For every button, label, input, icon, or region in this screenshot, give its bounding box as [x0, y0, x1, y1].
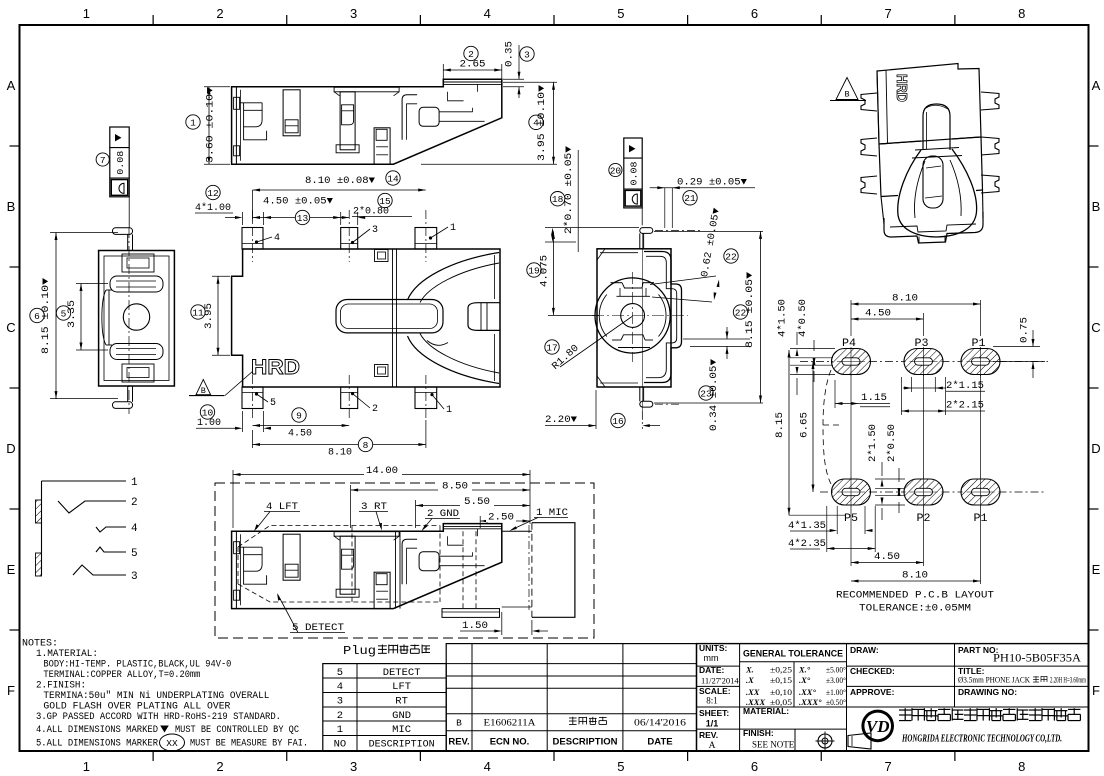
svg-text:DATE: DATE — [647, 737, 672, 748]
svg-text:A: A — [709, 741, 716, 751]
svg-text:SCALE:: SCALE: — [699, 686, 731, 696]
svg-text:.X°: .X° — [799, 675, 811, 685]
svg-text:A: A — [7, 78, 16, 93]
svg-text:1: 1 — [83, 759, 90, 774]
svg-text:4.50 ±0.05▼: 4.50 ±0.05▼ — [263, 197, 333, 208]
view A: top side elevation of jack — [232, 79, 502, 164]
svg-text:8: 8 — [1018, 759, 1025, 774]
svg-text:4*1.00: 4*1.00 — [195, 202, 231, 214]
svg-text:1.MATERIAL:: 1.MATERIAL: — [36, 649, 98, 660]
view D: left side end view — [99, 228, 175, 414]
svg-text:4*2.35: 4*2.35 — [788, 538, 826, 550]
HRD marking on plan view — [225, 356, 300, 396]
plug contact labels — [254, 502, 568, 634]
datum triangle B under plan view — [189, 380, 225, 397]
svg-text:±1.00°: ±1.00° — [826, 687, 846, 697]
PCB dim 4.50 bottom — [851, 552, 924, 564]
dimension 0.62 +/-0.05 callout 22 — [650, 207, 738, 302]
company logo and name — [863, 708, 1081, 744]
svg-text:TOLERANCE:±0.05MM: TOLERANCE:±0.05MM — [859, 603, 971, 615]
svg-text:1.00: 1.00 — [197, 418, 221, 429]
svg-text:10: 10 — [202, 407, 214, 418]
PCB dim 1.15 — [835, 380, 890, 408]
svg-text:4*0.50: 4*0.50 — [797, 299, 809, 337]
svg-text:1: 1 — [83, 6, 90, 21]
svg-text:ECN NO.: ECN NO. — [490, 737, 530, 748]
svg-text:B: B — [1092, 199, 1101, 214]
svg-text:1.50: 1.50 — [462, 621, 488, 632]
svg-text:18: 18 — [552, 194, 564, 205]
svg-text:2: 2 — [216, 6, 223, 21]
dimension 1.00 callout 10 — [196, 405, 271, 432]
svg-text:NOTES:: NOTES: — [22, 639, 58, 650]
svg-text:B: B — [456, 718, 462, 729]
svg-text:8.50: 8.50 — [442, 482, 468, 493]
svg-text:19: 19 — [528, 265, 540, 276]
svg-text:2.65: 2.65 — [460, 60, 486, 71]
svg-text:MUST BE CONTROLLED BY QC: MUST BE CONTROLLED BY QC — [175, 725, 299, 736]
dimension 2*0.80 callout 15 — [333, 193, 412, 225]
svg-text:DETECT: DETECT — [383, 667, 421, 679]
svg-text:1: 1 — [337, 724, 343, 736]
svg-text:A: A — [1092, 78, 1101, 93]
svg-text:2: 2 — [216, 759, 223, 774]
svg-text:P3: P3 — [915, 338, 929, 350]
svg-text:3: 3 — [372, 225, 378, 236]
svg-text:3: 3 — [350, 759, 357, 774]
view F: isometric view — [861, 64, 999, 244]
svg-text:5: 5 — [131, 548, 138, 560]
dimension 8.15 +/-0.05 callout 22 right — [654, 231, 763, 403]
svg-text:2.FINISH:: 2.FINISH: — [36, 681, 86, 692]
svg-text:RT: RT — [395, 696, 408, 708]
svg-text:C: C — [6, 320, 15, 335]
svg-text:3.GP PASSED ACCORD WITH HRD-Ro: 3.GP PASSED ACCORD WITH HRD-RoHS-219 STA… — [36, 712, 281, 723]
svg-text:5.50: 5.50 — [464, 497, 490, 508]
svg-text:13: 13 — [297, 213, 309, 224]
svg-text:6.65: 6.65 — [800, 412, 811, 438]
dimension 2.65 callout 2 — [443, 46, 502, 79]
dimension 3.60 +/-0.10 callout 1 — [186, 87, 230, 164]
svg-text:5: 5 — [61, 308, 67, 319]
PCB layout caption — [836, 590, 994, 615]
dimension 4.075 callout 19 — [527, 231, 599, 315]
svg-text:0.08: 0.08 — [115, 150, 126, 174]
svg-text:±0,10: ±0,10 — [770, 687, 792, 697]
svg-text:8.15 ±0.10▼: 8.15 ±0.10▼ — [41, 278, 52, 354]
svg-text:UNITS:: UNITS: — [699, 643, 728, 653]
svg-text:4: 4 — [274, 233, 280, 244]
svg-text:LFT: LFT — [392, 681, 411, 693]
svg-text:6: 6 — [751, 6, 758, 21]
svg-text:8.10 ±0.08▼: 8.10 ±0.08▼ — [305, 176, 375, 187]
svg-text:1/1: 1/1 — [706, 719, 719, 729]
svg-text:8.10: 8.10 — [328, 448, 352, 459]
svg-text:BODY:HI-TEMP. PLASTIC,BLACK,UL: BODY:HI-TEMP. PLASTIC,BLACK,UL 94V-0 — [43, 660, 231, 671]
svg-text:8: 8 — [363, 440, 369, 451]
svg-text:2*0.70 ±0.05▼: 2*0.70 ±0.05▼ — [563, 146, 575, 234]
HRD marking isometric — [893, 74, 910, 102]
datum triangle B isometric — [830, 78, 866, 101]
svg-text:B: B — [844, 90, 849, 100]
svg-text:12: 12 — [207, 188, 219, 199]
svg-text:7: 7 — [884, 759, 891, 774]
svg-text:D: D — [1091, 441, 1100, 456]
svg-text:15: 15 — [379, 196, 391, 207]
svg-text:Plug: Plug — [343, 644, 376, 658]
svg-text:HONGRIDA ELECTRONIC TECHNOLOGY: HONGRIDA ELECTRONIC TECHNOLOGY CO,LTD. — [901, 734, 1062, 745]
svg-text:11: 11 — [192, 307, 204, 318]
svg-text:4.50: 4.50 — [865, 309, 891, 320]
pin identification schematic — [36, 477, 139, 583]
svg-text:14.00: 14.00 — [366, 466, 398, 477]
svg-text:HRD: HRD — [251, 356, 300, 379]
PCB dim 8.10 top — [851, 294, 981, 306]
svg-text:3: 3 — [524, 49, 530, 60]
svg-text:SEE NOTE: SEE NOTE — [752, 740, 795, 750]
svg-text:HRD: HRD — [893, 74, 910, 102]
plug diagram dims 14.00 / 8.50 / 5.50 / 2.50 — [233, 466, 530, 528]
svg-text:DESCRIPTION: DESCRIPTION — [553, 737, 618, 748]
svg-text:2.20H H=3.60mm: 2.20H H=3.60mm — [1050, 676, 1086, 685]
pins on plan view with leaders 4,3,1 top and 5,2,1 bottom — [242, 210, 456, 420]
surface flag 0.08 callout 7 — [96, 127, 129, 228]
svg-text:4*1.35: 4*1.35 — [788, 520, 826, 532]
svg-text:3.95: 3.95 — [204, 303, 215, 329]
svg-text:DRAW:: DRAW: — [850, 645, 879, 655]
dimension 3.35 callout 5 — [56, 284, 108, 351]
radius R1.80 callout 17 — [545, 317, 632, 373]
dimension 8.15 +/-0.10 callout 6 — [30, 233, 118, 399]
PCB dim 0.75 — [993, 317, 1045, 378]
revision table — [446, 644, 696, 751]
svg-text:±0,15: ±0,15 — [770, 675, 792, 685]
view C: front view with barrel circle — [592, 228, 700, 420]
svg-text:1: 1 — [450, 223, 456, 234]
svg-text:0.29 ±0.05▼: 0.29 ±0.05▼ — [677, 178, 747, 189]
svg-text:GND: GND — [392, 710, 411, 722]
svg-text:5: 5 — [270, 398, 276, 409]
notes block — [22, 639, 308, 752]
svg-text:2: 2 — [131, 497, 138, 509]
view E: section with plug inserted — [232, 523, 575, 618]
svg-text:2*0.80: 2*0.80 — [353, 206, 389, 218]
pin description table — [323, 664, 446, 751]
dimension 2.20 callout 16 — [545, 390, 660, 429]
svg-text:8.10: 8.10 — [902, 571, 928, 582]
svg-text:X.°: X.° — [798, 665, 811, 675]
PCB dim 4.50 top — [851, 309, 924, 321]
view B: plan (top) view of jack — [232, 249, 500, 387]
svg-text:B: B — [7, 199, 16, 214]
svg-text:2.20▼: 2.20▼ — [545, 415, 577, 426]
dimension 4*1.00 callout 12 — [195, 185, 271, 225]
svg-text:9: 9 — [296, 410, 302, 421]
svg-text:4.50: 4.50 — [874, 552, 900, 563]
PCB dim 2*1.50 / 2*0.50 — [867, 424, 905, 520]
svg-text:6: 6 — [751, 759, 758, 774]
svg-text:DRAWING NO:: DRAWING NO: — [958, 687, 1017, 697]
svg-text:PH10-5B05F35A: PH10-5B05F35A — [993, 653, 1082, 665]
svg-text:5.ALL DIMENSIONS MARKER: 5.ALL DIMENSIONS MARKER — [36, 739, 158, 750]
svg-text:.X: .X — [746, 675, 754, 685]
svg-text:2: 2 — [468, 49, 474, 60]
recommended PCB layout — [800, 300, 1048, 584]
svg-text:B: B — [201, 386, 206, 396]
svg-text:RECOMMENDED P.C.B LAYOUT: RECOMMENDED P.C.B LAYOUT — [836, 590, 994, 602]
svg-text:8.15 ±0.05▼: 8.15 ±0.05▼ — [745, 272, 756, 348]
svg-text:1: 1 — [446, 405, 452, 416]
svg-text:FINISH:: FINISH: — [743, 728, 774, 738]
dimension 8.10 +/-0.08 callout 14 — [253, 171, 426, 192]
svg-text:3: 3 — [350, 6, 357, 21]
dimension 0.34 +/-0.05 callout 23 — [683, 327, 750, 431]
svg-text:22: 22 — [735, 307, 747, 318]
svg-text:mm: mm — [704, 653, 719, 663]
svg-text:XX: XX — [166, 738, 178, 749]
dimension 8.10 callout 8 — [253, 420, 426, 459]
svg-text:6: 6 — [34, 311, 40, 322]
svg-text:2*2.15: 2*2.15 — [946, 400, 984, 412]
svg-text:VD: VD — [866, 717, 890, 736]
svg-text:P1: P1 — [972, 338, 986, 350]
svg-text:2: 2 — [372, 404, 378, 415]
svg-text:MIC: MIC — [392, 724, 411, 736]
svg-text:3.60 ±0.10▼: 3.60 ±0.10▼ — [206, 87, 217, 163]
svg-text:TITLE:: TITLE: — [958, 666, 985, 676]
svg-text:8.15: 8.15 — [775, 412, 786, 438]
svg-text:11/27'2014: 11/27'2014 — [701, 676, 739, 686]
PCB dim 4*1.50 and 4*0.50 — [777, 299, 836, 395]
svg-text:DESCRIPTION: DESCRIPTION — [369, 739, 435, 751]
svg-text:4*1.50: 4*1.50 — [777, 299, 789, 337]
svg-text:17: 17 — [546, 342, 557, 353]
svg-text:4.ALL DIMENSIONS MARKED: 4.ALL DIMENSIONS MARKED — [36, 725, 158, 736]
svg-text:2: 2 — [337, 710, 343, 722]
svg-text:REV.: REV. — [699, 730, 718, 740]
svg-text:CHECKED:: CHECKED: — [850, 666, 895, 676]
svg-text:5: 5 — [617, 759, 624, 774]
svg-text:REV.: REV. — [448, 737, 469, 748]
svg-text:TERMINAL:COPPER ALLOY,T=0.20mm: TERMINAL:COPPER ALLOY,T=0.20mm — [43, 670, 200, 681]
svg-text:NO: NO — [334, 739, 347, 751]
svg-text:4: 4 — [484, 6, 491, 21]
svg-text:21: 21 — [684, 193, 696, 204]
svg-text:0.75: 0.75 — [1020, 317, 1031, 343]
PCB dim 2*1.15 — [903, 377, 985, 392]
svg-text:22: 22 — [725, 251, 737, 262]
svg-text:1.15: 1.15 — [861, 393, 887, 404]
svg-text:4: 4 — [484, 759, 491, 774]
svg-text:GENERAL TOLERANCE: GENERAL TOLERANCE — [743, 649, 843, 659]
svg-text:3: 3 — [131, 571, 138, 583]
svg-text:8:1: 8:1 — [706, 696, 718, 706]
svg-text:.XXX°: .XXX° — [799, 697, 822, 707]
svg-text:1: 1 — [131, 477, 138, 489]
svg-text:F: F — [1092, 683, 1100, 698]
svg-text:2*0.50: 2*0.50 — [886, 424, 898, 462]
svg-text:E1606211A: E1606211A — [484, 718, 537, 728]
PCB dim 8.15 / 6.65 left — [775, 350, 845, 515]
svg-text:E: E — [7, 562, 16, 577]
svg-text:TERMINA:50u″ MIN Ni UNDERPLATI: TERMINA:50u″ MIN Ni UNDERPLATING OVERALL — [43, 690, 269, 702]
svg-text:P4: P4 — [842, 338, 856, 350]
plug dim 1.50 — [460, 612, 548, 635]
svg-text:20: 20 — [610, 165, 622, 176]
dimension 0.29 +/-0.05 callout 21 — [650, 178, 755, 229]
svg-text:.XX: .XX — [746, 687, 760, 697]
svg-text:4.50: 4.50 — [288, 429, 312, 440]
svg-text:APPROVE:: APPROVE: — [850, 687, 895, 697]
svg-text:2*1.15: 2*1.15 — [946, 380, 984, 392]
svg-text:D: D — [6, 441, 15, 456]
svg-text:E: E — [1092, 562, 1101, 577]
PCB dim 4*2.35 — [788, 506, 875, 552]
svg-text:MATERIAL:: MATERIAL: — [743, 706, 789, 716]
svg-text:Ø3.5mm PHONE JACK: Ø3.5mm PHONE JACK — [958, 676, 1030, 685]
svg-text:23: 23 — [700, 388, 712, 399]
svg-text:06/14'2016: 06/14'2016 — [634, 718, 687, 728]
dimension 3.95 callout 11 — [191, 276, 230, 355]
svg-text:0.08: 0.08 — [628, 161, 639, 185]
svg-text:8.10: 8.10 — [892, 294, 918, 305]
svg-text:SHEET:: SHEET: — [699, 708, 729, 718]
title block — [697, 643, 1089, 751]
svg-text:±5.00°: ±5.00° — [826, 665, 846, 675]
svg-text:±0,25: ±0,25 — [770, 665, 792, 675]
PCB dim 2*2.15 — [901, 377, 985, 415]
svg-text:3.35: 3.35 — [67, 300, 78, 328]
svg-text:MUST BE MEASURE BY FAI.: MUST BE MEASURE BY FAI. — [190, 739, 308, 750]
svg-text:5: 5 — [337, 667, 343, 679]
svg-text:GOLD FLASH OVER PLATING ALL OV: GOLD FLASH OVER PLATING ALL OVER — [43, 702, 230, 713]
svg-text:0.62 ±0.05▼: 0.62 ±0.05▼ — [700, 207, 723, 278]
svg-text:4: 4 — [533, 118, 539, 129]
svg-text:7: 7 — [884, 6, 891, 21]
svg-text:8: 8 — [1018, 6, 1025, 21]
svg-text:2.50: 2.50 — [488, 512, 514, 523]
svg-text:±3.00°: ±3.00° — [826, 675, 846, 685]
svg-text:0.35: 0.35 — [505, 41, 516, 67]
svg-text:1: 1 — [190, 117, 196, 128]
dimension 0.35 callout 3 — [503, 41, 534, 98]
svg-text:7: 7 — [100, 155, 106, 166]
svg-text:16: 16 — [612, 416, 624, 427]
plug diagram caption — [343, 644, 430, 658]
svg-text:4: 4 — [337, 681, 343, 693]
svg-text:2*1.50: 2*1.50 — [867, 424, 879, 462]
svg-text:X.: X. — [745, 665, 754, 675]
dimension 4.50 callout 9 — [253, 408, 350, 440]
dimension 3.95 +/-0.10 callout 4 — [421, 82, 557, 164]
dimension 4.50 +/-0.05 callout 13 — [253, 190, 350, 225]
PCB dim 8.10 bottom — [851, 571, 981, 583]
svg-text:±0.50°: ±0.50° — [826, 697, 846, 707]
svg-text:3: 3 — [337, 696, 343, 708]
svg-text:F: F — [7, 683, 15, 698]
plug mating diagram dashed border — [215, 483, 594, 638]
dimension 2*0.70 +/-0.05 callout 18 — [545, 146, 639, 252]
svg-text:4: 4 — [131, 523, 138, 535]
svg-text:5: 5 — [617, 6, 624, 21]
surface flag 0.08 callout 20 — [609, 138, 642, 225]
svg-text:C: C — [1091, 320, 1100, 335]
PCB dim 4*1.35 — [788, 506, 873, 534]
svg-text:DATE:: DATE: — [699, 665, 725, 675]
svg-text:14: 14 — [387, 173, 399, 184]
svg-text:.XX°: .XX° — [799, 687, 816, 697]
